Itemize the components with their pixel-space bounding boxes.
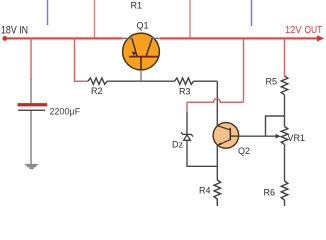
wire: Q1 base lead (140, 70, 142, 81)
wire: R6 to bottom edge (284, 200, 286, 206)
wire: blue stub top right (251, 0, 253, 26)
wire: VR1 to R6 (284, 144, 286, 181)
resistor R6 (281, 181, 288, 200)
resistor R4 (214, 180, 221, 206)
svg-text:R4: R4 (199, 186, 211, 196)
svg-text:R2: R2 (91, 86, 103, 96)
potentiometer VR1 (281, 127, 288, 145)
wire: R2 to R3 (107, 80, 175, 82)
wire: Q2 base to VR1 wiper (239, 135, 277, 137)
svg-text:OUT: OUT (305, 25, 323, 36)
wire: wiper riser to VR1 top (266, 116, 285, 136)
resistor R2 (88, 78, 107, 84)
node: 18V IN junction dot (2, 36, 7, 41)
svg-text:R1: R1 (131, 0, 143, 10)
svg-text:R3: R3 (179, 87, 191, 97)
VR1 wiper arrowhead (276, 134, 281, 139)
svg-text:Q1: Q1 (137, 21, 149, 31)
svg-text:VR1: VR1 (288, 133, 306, 143)
wire: zener bottom lead and corner to emitter node (187, 140, 217, 166)
svg-text:12V: 12V (285, 25, 302, 36)
svg-text:18V IN: 18V IN (1, 24, 28, 36)
wire: red down to zener (186, 102, 188, 113)
wire: vertical into Q2 collector (216, 81, 218, 126)
wire: main input rail (5, 37, 123, 40)
zener diode Dz (181, 132, 193, 140)
resistor R3 (175, 78, 194, 84)
wire: R5 feed red (284, 38, 286, 75)
wire: R3 to corner and down (194, 80, 218, 82)
wire: zener top lead (186, 113, 188, 135)
wire: capacitor feed red (30, 38, 32, 80)
12V OUT arrowhead (317, 35, 324, 41)
svg-text:Q2: Q2 (238, 146, 250, 156)
wire: blue stub top left (47, 0, 49, 25)
wire: capacitor to ground (30, 111, 32, 164)
wire: Q2 emitter down through node to R4 (216, 145, 218, 180)
wire: R5 to VR1 (284, 95, 286, 127)
resistor R5 (281, 76, 288, 95)
wire: red vertical at x=190 (189, 0, 191, 38)
transistor Q2 (213, 123, 239, 149)
capacitor C1 bottom plate (18, 110, 45, 111)
svg-text:R6: R6 (264, 188, 276, 198)
svg-text:R5: R5 (266, 76, 278, 86)
wire: R2 feed red vertical (75, 38, 89, 81)
svg-text:2200μF: 2200μF (50, 107, 81, 117)
wire: red feedback vertical from rail (243, 38, 245, 102)
svg-text:Dz: Dz (172, 140, 183, 150)
ground (25, 164, 38, 169)
wire: red horizontal with hop over collector line (187, 99, 244, 102)
wire: R1 lead red vertical (94, 0, 96, 38)
transistor Q1 (123, 33, 160, 70)
capacitor C1 top plate (18, 103, 48, 106)
wire: capacitor feed gray (30, 79, 32, 103)
wire: main output rail (159, 37, 318, 39)
